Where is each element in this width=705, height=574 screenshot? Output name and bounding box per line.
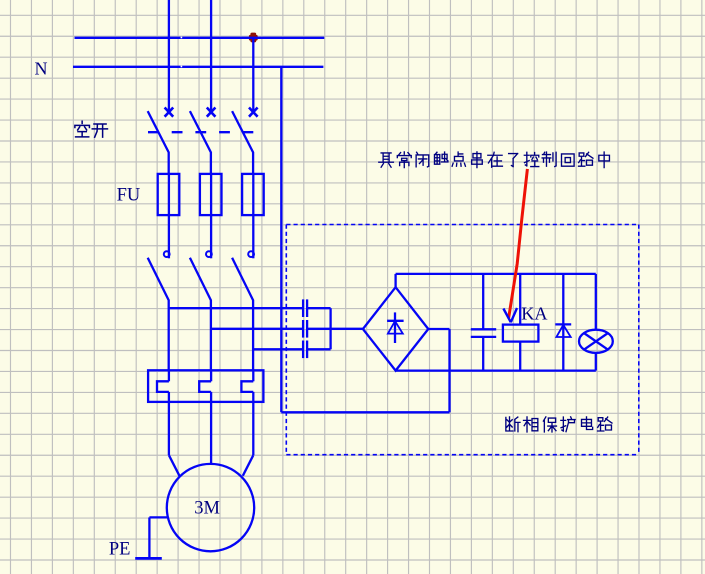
svg-text:FU: FU [117, 186, 141, 206]
svg-text:KA: KA [521, 304, 547, 324]
svg-text:PE: PE [109, 540, 131, 560]
svg-text:N: N [35, 59, 48, 79]
svg-text:3M: 3M [194, 498, 220, 518]
